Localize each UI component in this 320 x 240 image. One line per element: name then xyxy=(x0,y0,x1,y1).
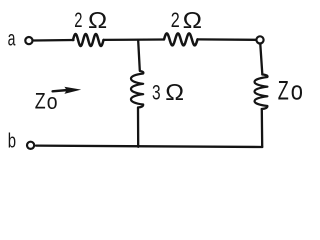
wire Zo resistor to bottom right corner xyxy=(261,109,264,147)
arrow shaft for Zo direction xyxy=(53,90,68,91)
resistor R2 2ohm xyxy=(164,33,198,45)
wire R2 to right terminal xyxy=(198,38,256,41)
resistor R1 2ohm xyxy=(73,34,104,46)
wire junction to 3ohm resistor xyxy=(138,41,140,71)
bottom wire xyxy=(36,146,262,147)
svg-text:o: o xyxy=(291,75,303,105)
svg-text:Z: Z xyxy=(278,75,289,105)
terminal a circle xyxy=(25,37,32,44)
resistor Zo vertical xyxy=(255,75,268,110)
svg-text:b: b xyxy=(8,131,16,153)
arrow head for Zo direction xyxy=(64,87,81,94)
wire right terminal down to Zo resistor xyxy=(260,44,262,74)
svg-text:Ω: Ω xyxy=(88,7,107,33)
resistor R3 3ohm vertical xyxy=(131,71,143,108)
terminal b circle xyxy=(27,142,34,149)
svg-text:Z: Z xyxy=(35,88,46,113)
svg-text:o: o xyxy=(47,89,58,114)
svg-text:Ω: Ω xyxy=(183,7,202,33)
wire a to R1 xyxy=(34,39,74,42)
right terminal circle xyxy=(256,36,263,43)
wire 3ohm resistor to bottom wire xyxy=(137,108,139,147)
svg-text:Ω: Ω xyxy=(165,79,184,105)
wire R1 to junction to R2 xyxy=(104,38,165,41)
svg-text:2: 2 xyxy=(171,9,180,32)
svg-text:a: a xyxy=(8,28,16,51)
svg-text:3: 3 xyxy=(152,80,161,104)
svg-text:2: 2 xyxy=(74,9,82,32)
